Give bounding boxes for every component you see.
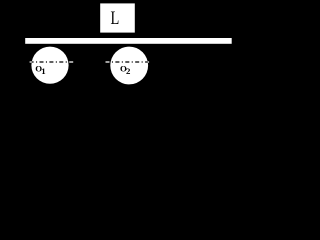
- svg-text:L: L: [110, 7, 119, 28]
